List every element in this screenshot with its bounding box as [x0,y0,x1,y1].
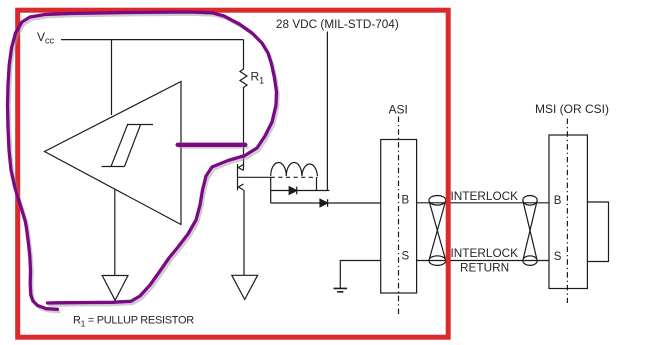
ground (op-amp) [102,276,128,301]
shadow of purple freehand loop [10,15,279,312]
transistor Q1 drain arrow [238,165,243,171]
svg-text:S: S [554,251,562,263]
wire coil right terminal tick [316,177,318,190]
svg-text:B: B [554,195,562,207]
svg-text:B: B [402,195,410,207]
ASI connector box [381,140,417,294]
wire MSI loopback bracket [587,202,608,262]
svg-text:28 VDC (MIL-STD-704): 28 VDC (MIL-STD-704) [276,18,399,31]
wire Vcc rail [61,39,244,41]
twisted pair symbol right [523,196,537,266]
transistor Q1 bar [237,164,239,190]
red annotation rectangle border [18,10,449,337]
purple stroke over output wire [178,143,246,147]
svg-text:S: S [402,251,410,263]
MSI centerline dash-dot [566,119,568,304]
svg-text:R1 = PULLUP RESISTOR: R1 = PULLUP RESISTOR [73,315,194,329]
wire Q1 source to ground [243,190,245,275]
inductor L1 relay coil [271,162,318,176]
wire 28VDC feed [326,32,328,191]
wire U1 minus input to ground [114,189,116,275]
coil armature dashed line [271,176,318,178]
earth ground (ASI S) [334,288,348,291]
diode CR2 [320,199,328,207]
wire interlock B pair [417,202,549,204]
wire series branch to ASI B [271,202,381,204]
ASI centerline dash-dot [398,117,400,317]
wire Vcc to op-amp top edge [111,40,113,115]
wire U1 output to gate node [181,145,244,147]
transistor Q1 source arrow [238,184,243,190]
hysteresis symbol inside U1 [102,125,154,167]
wire Q1 to coil [238,176,271,178]
op-amp U1 comparator triangle [45,82,182,225]
twisted pair symbol left [429,196,446,266]
resistor R1 [240,40,247,170]
wire coil left terminal tick [270,177,272,203]
diode CR1 [289,187,297,195]
wire flyback branch [271,190,330,192]
wire ASI S to ground [340,261,380,289]
MSI connector box [549,135,587,289]
svg-text:INTERLOCK: INTERLOCK [451,189,519,203]
purple freehand loop annotation [8,12,277,309]
svg-text:MSI (OR CSI): MSI (OR CSI) [535,102,609,116]
svg-text:INTERLOCK: INTERLOCK [451,246,519,260]
svg-text:RETURN: RETURN [460,261,509,275]
svg-text:ASI: ASI [389,103,408,117]
ground (Q1 source) [232,275,258,299]
wire interlock S pair [417,260,549,262]
